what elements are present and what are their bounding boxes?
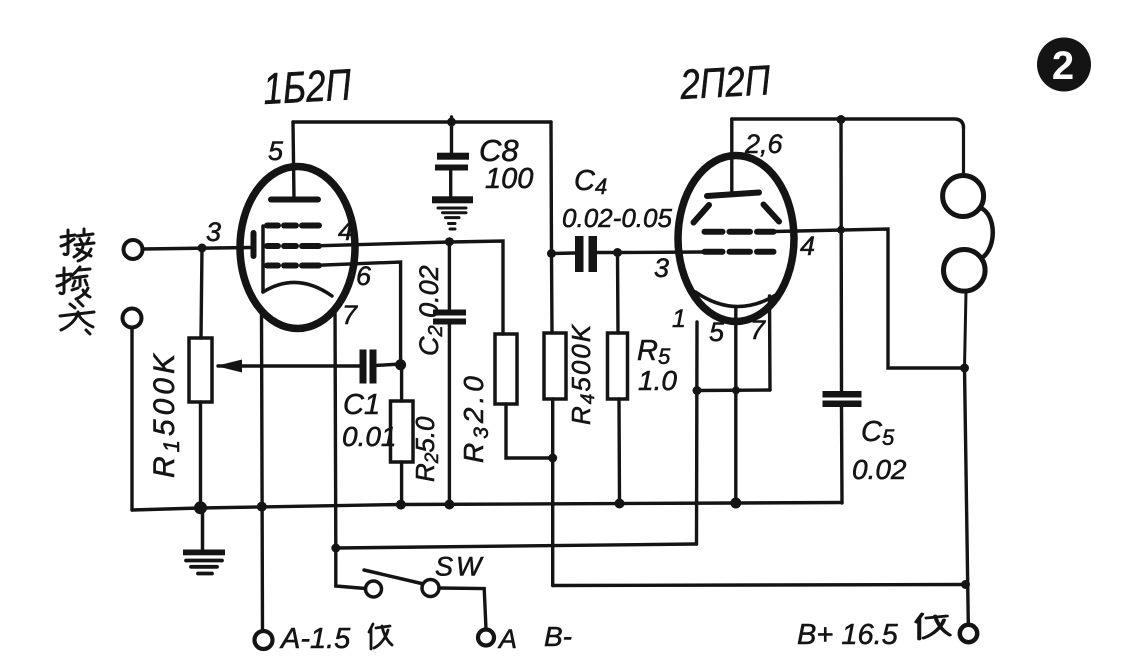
tube V1 cathode bar — [251, 233, 257, 256]
node: A- lead on bus — [257, 502, 267, 512]
terminal: A / B- — [478, 630, 494, 646]
wire: C1 to R1 wiper arrow — [218, 364, 360, 367]
tube V2 beam plates — [694, 205, 780, 223]
node: pin4/C5 drop crossing — [837, 226, 845, 234]
wire: R1 to bus — [199, 402, 202, 508]
node: C8 junction on top rail — [447, 118, 456, 127]
svg-text:R5: R5 — [637, 335, 671, 369]
svg-text:5: 5 — [268, 136, 284, 166]
capacitor C1 — [360, 350, 401, 384]
switch SW — [364, 570, 439, 597]
svg-text:A: A — [497, 624, 517, 654]
svg-text:0.02-0.05: 0.02-0.05 — [562, 203, 673, 233]
capacitor C8 — [435, 117, 469, 197]
wire: B+ drop to terminal — [965, 368, 969, 625]
hanzi FU (volt) after A-1.5 — [369, 624, 392, 649]
wire: to tube V2 pin3 — [618, 250, 703, 254]
hanzi tou — [60, 301, 94, 334]
wire: drop from top rail to C4 node — [549, 122, 553, 254]
tube V2 plate — [707, 193, 759, 197]
svg-text:2,6: 2,6 — [744, 129, 784, 159]
hanzi jie — [61, 229, 94, 261]
tube V1 envelope — [240, 167, 355, 329]
hanzi FU (volt) after B+16.5 — [916, 614, 949, 639]
svg-text:1Б2П: 1Б2П — [262, 60, 353, 114]
resistor R2 — [391, 364, 414, 505]
tube V1 filament arc — [263, 282, 332, 296]
tube V2 grid row 1 (pin4) — [705, 229, 774, 235]
node: C4 right / R5 top — [613, 248, 622, 257]
wire: tube V2 pin7 lead — [768, 296, 772, 390]
wire: tube V1 pin6 to C1/R2 node — [312, 262, 401, 364]
node: C2 tap — [445, 237, 454, 246]
node: C4 left / R4 top — [547, 249, 556, 258]
svg-text:6: 6 — [356, 261, 372, 291]
wire: tube V1 pin7 lead down — [333, 306, 337, 548]
tube V2 envelope — [678, 156, 794, 322]
wire: filament rail to tube V2 pin1 — [336, 544, 697, 548]
svg-text:R4500K: R4500K — [566, 323, 599, 425]
svg-text:0.02: 0.02 — [852, 454, 907, 485]
svg-text:4: 4 — [800, 231, 815, 261]
svg-text:C1: C1 — [343, 389, 380, 421]
svg-text:5: 5 — [709, 317, 725, 347]
svg-text:R32.0: R32.0 — [458, 372, 493, 463]
wire: tube V2 pin1 lead — [695, 322, 699, 544]
svg-text:A-1.5: A-1.5 — [279, 623, 351, 655]
svg-text:1.0: 1.0 — [638, 365, 677, 396]
svg-text:2П2П: 2П2П — [678, 56, 772, 108]
wire: down to R1 — [201, 248, 202, 338]
wire: tube V1 pin4 (grid2) to R3 — [310, 241, 503, 334]
wire: B+ rail (bottom) — [553, 585, 966, 586]
arrow head at R1 — [216, 360, 242, 373]
svg-text:4: 4 — [338, 216, 353, 246]
capacitor C2 — [433, 242, 466, 505]
node: R2 on bus — [396, 500, 406, 510]
svg-text:B+ 16.5: B+ 16.5 — [797, 619, 899, 651]
capacitor C4 — [552, 236, 618, 272]
ground (main) — [183, 508, 225, 574]
wire: tube V2 pin5 lead — [734, 307, 737, 504]
svg-text:3: 3 — [206, 217, 221, 247]
resistor R5 — [608, 253, 628, 505]
terminal: A-1.5V — [255, 631, 273, 649]
node: R1 on bus — [194, 501, 207, 514]
ground (under C8) — [432, 196, 473, 229]
tube V1 grid row 3 — [267, 263, 319, 269]
node: R5 on bus — [615, 499, 625, 509]
svg-text:SW: SW — [435, 552, 485, 582]
wire: tube V2 pin4 to phones bottom — [774, 229, 965, 368]
svg-text:100: 100 — [485, 163, 533, 195]
tube V1 grid row 1 — [267, 223, 319, 229]
node: pin7/SW junction — [331, 544, 340, 553]
node: R1 tap on input wire — [198, 244, 207, 253]
hanzi qin — [57, 267, 90, 299]
svg-text:C5: C5 — [861, 416, 895, 450]
capacitor C5 — [823, 120, 862, 504]
wire: input bottom down to bus — [130, 328, 133, 511]
node: C5 tap on top rail — [837, 115, 846, 124]
node: pin5 tie — [732, 386, 740, 394]
wire: input to tube V1 pin3 — [143, 248, 252, 250]
tube V2 grid row 2 (pin3) — [705, 249, 774, 255]
node: C1/R2/pin6 junction — [395, 359, 406, 370]
wire: SW to A terminal — [439, 588, 486, 629]
wire: left top rail — [293, 120, 551, 123]
svg-text:0.01: 0.01 — [342, 421, 397, 452]
resistor R1 — [189, 338, 212, 402]
svg-text:C2 0.02: C2 0.02 — [414, 265, 447, 356]
tube V2 top lead (pins 2,6) — [730, 119, 733, 191]
wire: tube V1 filament lead to A- terminal — [262, 312, 263, 631]
tube V1 grid side rod — [261, 226, 265, 292]
badge circle 2 — [1037, 38, 1091, 92]
svg-text:3: 3 — [654, 253, 669, 283]
svg-text:B-: B- — [544, 621, 572, 652]
tube V1 grid row 2 — [267, 243, 319, 249]
node: phones bottom junction — [960, 364, 969, 373]
wire: ground bus — [132, 503, 842, 511]
svg-text:7: 7 — [342, 300, 358, 330]
tube V2 filament arc — [696, 292, 778, 307]
svg-text:2: 2 — [1052, 44, 1074, 88]
svg-text:C4: C4 — [574, 165, 607, 199]
hanzi label JIE-QIN-TOU (input terminals) — [57, 229, 94, 334]
svg-text:R25.0: R25.0 — [410, 416, 443, 482]
node: B+ rail joins B+ drop — [961, 580, 970, 589]
terminal: B+ — [960, 625, 977, 642]
resistor R4 — [544, 254, 566, 586]
svg-text:7: 7 — [750, 315, 766, 345]
wire: tube V2 top rail — [732, 119, 964, 128]
resistor R3 — [495, 334, 553, 458]
node: pin5 on bus — [730, 498, 741, 509]
tube V1 plate — [271, 197, 318, 203]
node: C2 on bus — [444, 500, 454, 510]
terminal: input top — [124, 240, 143, 259]
headphones — [943, 126, 993, 368]
terminal: input bottom — [123, 309, 142, 328]
wire: tube V2 filament tie — [697, 388, 770, 392]
node: pin1 tie — [693, 386, 702, 395]
wire: down to SW — [336, 548, 366, 589]
svg-text:1: 1 — [672, 305, 686, 333]
wire: tube1 plate lead up to top rail — [293, 122, 294, 199]
svg-text:R1500K: R1500K — [148, 350, 184, 478]
node: R3/R4 bottom join — [548, 454, 557, 463]
